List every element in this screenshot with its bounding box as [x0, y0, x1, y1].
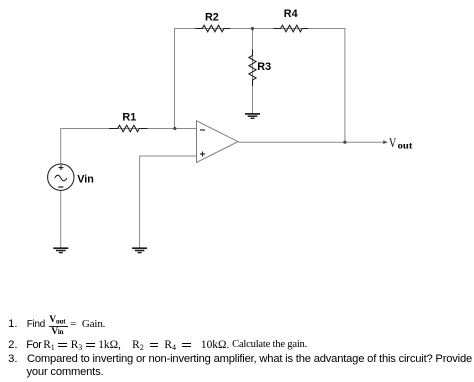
wire R1 input row	[61, 129, 197, 165]
item 2: Calculate the gain.	[232, 339, 307, 351]
resistor R4	[274, 25, 309, 32]
wire R3 branch	[252, 29, 254, 114]
item 2 number	[8, 339, 17, 352]
svg-text:Vin: Vin	[77, 174, 94, 186]
wire top feedback rail with corners	[175, 29, 345, 143]
fraction numerator Vout	[49, 314, 65, 325]
item 3 line 1	[27, 353, 472, 366]
source Vin sine symbol	[55, 175, 67, 181]
svg-text:R1: R1	[122, 111, 136, 123]
svg-text:out: out	[398, 141, 414, 151]
op-amp U1 triangle	[197, 121, 239, 163]
wire Vin to ground	[60, 190, 62, 248]
node junction dot at inverting input	[173, 127, 176, 130]
ground under Vin	[53, 248, 68, 252]
item 2 equation part C	[201, 339, 229, 352]
item 2: For	[26, 339, 41, 352]
svg-text:R3: R3	[257, 61, 271, 73]
node junction dot output	[343, 141, 346, 144]
node junction dot R2-R3-R4	[251, 27, 254, 30]
op-amp minus input mark	[200, 129, 205, 131]
wire non-inverting input to ground	[140, 156, 197, 248]
resistor R1	[109, 125, 148, 132]
op-amp plus input mark	[200, 153, 205, 155]
resistor R2	[195, 25, 230, 32]
ground under R3	[245, 114, 260, 118]
fraction denominator Vin	[51, 326, 63, 337]
wire output	[238, 141, 385, 143]
source Vin plus mark	[59, 167, 64, 169]
item 2 equation part A	[43, 339, 121, 352]
item 1: = Gain.	[70, 318, 76, 331]
item 1 number	[8, 318, 17, 331]
item 1: Find	[27, 319, 45, 330]
svg-text:R4: R4	[284, 8, 298, 20]
ground at non-inverting input	[132, 248, 147, 252]
item 3 line 2	[27, 366, 104, 379]
source Vin minus mark	[58, 186, 63, 188]
output arrow head	[383, 140, 388, 144]
item 2 equation part B	[132, 339, 191, 352]
source Vin circle	[48, 164, 74, 190]
resistor R3 (vertical)	[249, 50, 256, 86]
svg-text:V: V	[389, 135, 397, 150]
fraction bar	[49, 326, 67, 327]
item 3 number	[8, 353, 17, 366]
svg-text:R2: R2	[205, 11, 219, 23]
